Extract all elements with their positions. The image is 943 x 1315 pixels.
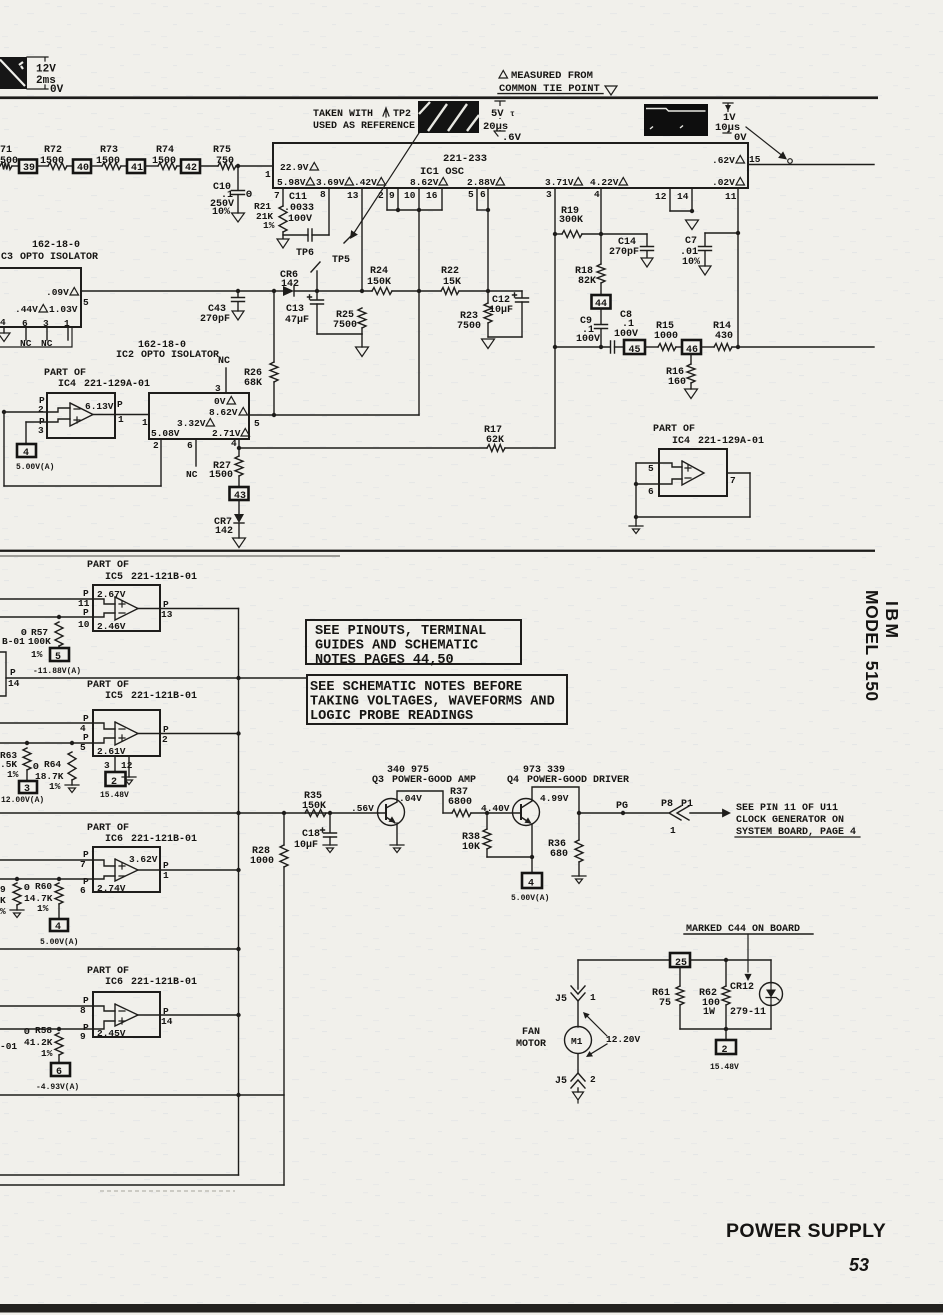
faint dashed remnant line (100, 1190, 235, 1192)
svg-text:221-129A-01: 221-129A-01 (84, 379, 150, 390)
svg-text:MEASURED FROM: MEASURED FROM (511, 70, 593, 82)
node R37/R38/Q4 base with 4.40V (485, 811, 489, 815)
svg-text:2: 2 (722, 1045, 728, 1056)
svg-text:OPTO ISOLATOR: OPTO ISOLATOR (20, 252, 98, 263)
svg-text:100V: 100V (614, 329, 638, 340)
label .6V (494, 131, 498, 136)
note box: SEE PINOUTS TERMINAL GUIDES (306, 620, 521, 664)
svg-text:12V: 12V (36, 64, 56, 76)
svg-text:2.46V: 2.46V (97, 621, 126, 632)
terminal box 41 (127, 160, 145, 174)
vertical bus collecting op-amp outputs (238, 609, 240, 1176)
svg-text:10%: 10% (682, 257, 700, 268)
IC2 pin 5 wire to pin10-bus drop (249, 414, 419, 416)
svg-text:15K: 15K (443, 277, 461, 288)
svg-text:PART OF: PART OF (87, 966, 129, 977)
supply rail to power-good amp (0, 812, 378, 814)
svg-text:6: 6 (56, 1067, 62, 1078)
svg-text:221-121B-01: 221-121B-01 (131, 977, 197, 988)
ground below R36 (572, 876, 586, 884)
terminal box 2 (15.48V) (106, 772, 126, 786)
svg-text:9: 9 (0, 884, 6, 895)
svg-text:5.08V: 5.08V (151, 428, 180, 439)
svg-text:7: 7 (730, 475, 736, 486)
node pin13/R25 (360, 289, 364, 293)
wire C3 pin5 to C43 (81, 290, 238, 292)
thick horizontal rule (bottom) (0, 1304, 943, 1313)
wire (91, 165, 102, 167)
svg-text:12: 12 (121, 760, 133, 771)
svg-text:46: 46 (686, 345, 698, 356)
svg-text:R58: R58 (35, 1025, 52, 1036)
svg-text:IC5: IC5 (105, 572, 123, 583)
wire R21 to C11 (283, 234, 308, 236)
svg-text:2: 2 (153, 440, 159, 451)
terminal box 46 (682, 340, 701, 354)
ground below R23 (482, 339, 495, 349)
svg-text:TAKEN WITH: TAKEN WITH (313, 109, 373, 120)
svg-text:22.9V: 22.9V (280, 162, 309, 173)
terminal box 42 (181, 160, 200, 174)
svg-text:1%: 1% (31, 649, 43, 660)
svg-text:3: 3 (38, 425, 44, 436)
svg-text:53: 53 (849, 1255, 869, 1275)
resistor R60 14.7K 1% (57, 877, 61, 881)
svg-text:25: 25 (675, 958, 687, 969)
svg-text:USED AS REFERENCE: USED AS REFERENCE (313, 121, 415, 132)
terminal box 4 (5.00V A) below Q4 (531, 857, 533, 873)
svg-text:100K: 100K (28, 636, 51, 647)
svg-text:GUIDES AND SCHEMATIC: GUIDES AND SCHEMATIC (315, 639, 478, 654)
wire pin14 rail (6, 677, 307, 679)
svg-text:R60: R60 (35, 881, 52, 892)
svg-text:0V: 0V (50, 84, 64, 96)
svg-text:NOTES PAGES 44,50: NOTES PAGES 44,50 (315, 653, 454, 668)
svg-text:45: 45 (629, 345, 641, 356)
fan supply top wire (578, 959, 670, 961)
svg-text:4: 4 (231, 438, 237, 449)
svg-text:1W: 1W (703, 1007, 715, 1018)
svg-text:SEE PIN 11 OF U11: SEE PIN 11 OF U11 (736, 803, 838, 814)
svg-text:C11: C11 (289, 192, 307, 203)
svg-text:IBM: IBM (882, 601, 902, 641)
terminal box 44 (600, 283, 602, 295)
svg-text:5: 5 (83, 297, 89, 308)
ground below J5-2 (577, 1088, 579, 1092)
svg-text:PART OF: PART OF (44, 368, 86, 379)
svg-text:5: 5 (254, 418, 260, 429)
svg-text:41.2K: 41.2K (24, 1037, 53, 1048)
svg-text:1: 1 (590, 992, 596, 1003)
svg-text:1%: 1% (37, 903, 49, 914)
terminal box 45 (624, 340, 645, 354)
svg-text:J5: J5 (555, 1076, 567, 1087)
TP5 test point (344, 233, 354, 243)
svg-text:-01: -01 (0, 1041, 17, 1052)
svg-text:0V: 0V (214, 396, 226, 407)
svg-text:1500: 1500 (209, 470, 233, 481)
svg-text:3: 3 (24, 784, 30, 795)
wire motor to J5 pin 2 (577, 1054, 579, 1073)
svg-text:TAKING VOLTAGES, WAVEFORMS AND: TAKING VOLTAGES, WAVEFORMS AND (310, 695, 555, 710)
terminal box 3 (12.00V A) (19, 781, 37, 793)
wire C43 to R26 node (238, 290, 274, 292)
svg-text:14: 14 (677, 191, 689, 202)
ground below C43 (232, 311, 244, 320)
svg-text:CLOCK GENERATOR ON: CLOCK GENERATOR ON (736, 815, 844, 826)
svg-text:10: 10 (78, 619, 90, 630)
svg-text:6: 6 (648, 486, 654, 497)
svg-text:1: 1 (118, 414, 124, 425)
svg-text:3: 3 (546, 189, 552, 200)
svg-text:OPTO ISOLATOR: OPTO ISOLATOR (141, 350, 219, 361)
svg-text:3: 3 (104, 760, 110, 771)
svg-text:2: 2 (378, 190, 384, 201)
ground below C10 (232, 213, 245, 222)
svg-text:4: 4 (55, 922, 61, 933)
IC4b feedback loop (635, 463, 637, 517)
transistor Q3 (378, 799, 405, 826)
svg-text:R24: R24 (370, 266, 388, 277)
svg-text:680: 680 (550, 849, 568, 860)
op-amp IC4b box (659, 449, 727, 496)
svg-text:IC6: IC6 (105, 977, 123, 988)
svg-text:.02V: .02V (712, 177, 735, 188)
svg-text:4: 4 (528, 879, 534, 890)
svg-text:71: 71 (0, 145, 12, 156)
svg-text:FAN: FAN (522, 1027, 540, 1038)
svg-text:.56V: .56V (351, 803, 374, 814)
svg-text:15.48V: 15.48V (710, 1063, 739, 1072)
svg-text:POWER-GOOD DRIVER: POWER-GOOD DRIVER (527, 775, 629, 786)
op-amp IC4a triangle (70, 403, 93, 426)
fan bottom wire (680, 1028, 771, 1030)
svg-text:3: 3 (43, 318, 49, 329)
svg-text:5.00V(A): 5.00V(A) (511, 894, 549, 903)
connector J5 pin 1 chevrons (577, 960, 579, 989)
svg-text:6: 6 (187, 440, 193, 451)
svg-text:1%: 1% (41, 1048, 53, 1059)
wire to arrow (690, 812, 722, 814)
svg-text:279-11: 279-11 (730, 1007, 766, 1018)
wire R24 segment (317, 290, 372, 292)
C13/R25 common ground wire (317, 333, 362, 335)
terminal box 4 (5.00V A) (17, 444, 36, 457)
op-amp IC5b triangle (115, 722, 138, 745)
svg-text:4: 4 (0, 317, 6, 328)
ground below C7 (699, 266, 711, 275)
svg-text:42: 42 (185, 163, 197, 174)
svg-text:12.00V(A): 12.00V(A) (1, 796, 44, 805)
wire pin3 column to C8 (555, 346, 610, 348)
wire box25 to CR12 branch (690, 959, 771, 961)
svg-text:5: 5 (468, 189, 474, 200)
feedback frame: left bus down and bottom wire to IC2 pin 2 (3, 412, 5, 486)
svg-text:7500: 7500 (457, 321, 481, 332)
svg-text:8: 8 (320, 189, 326, 200)
svg-text:4: 4 (594, 189, 600, 200)
svg-text:221-121B-01: 221-121B-01 (131, 691, 197, 702)
wire pin6 bus down to R23 (487, 210, 489, 291)
op-amp IC6b box (93, 992, 160, 1037)
transistor Q4 (513, 799, 540, 826)
terminal box 6 (-4.93V A) (51, 1063, 70, 1076)
node CR6/C13/TP6 (315, 289, 319, 293)
svg-text:1: 1 (163, 870, 169, 881)
svg-text:1%: 1% (49, 781, 61, 792)
svg-text:221-129A-01: 221-129A-01 (698, 436, 764, 447)
svg-text:TP2: TP2 (393, 109, 411, 120)
thick horizontal rule (top) (0, 96, 878, 99)
svg-text:1000: 1000 (250, 856, 274, 867)
svg-text:1: 1 (670, 825, 676, 836)
svg-text:PART OF: PART OF (87, 560, 129, 571)
op-amp IC4a box (47, 393, 115, 438)
svg-text:8.62V: 8.62V (410, 177, 439, 188)
connector J5 pin 2 chevrons (571, 1073, 585, 1088)
svg-text:-11.88V(A): -11.88V(A) (33, 667, 81, 676)
svg-text:4: 4 (23, 448, 29, 459)
ground below C14 (641, 258, 653, 267)
wire (145, 165, 158, 167)
svg-text:1500: 1500 (152, 156, 176, 167)
svg-text:MOTOR: MOTOR (516, 1039, 546, 1050)
svg-text:1000: 1000 (654, 331, 678, 342)
svg-text:4.99V: 4.99V (540, 793, 569, 804)
svg-text:SEE SCHEMATIC NOTES BEFORE: SEE SCHEMATIC NOTES BEFORE (310, 680, 522, 695)
svg-text:R64: R64 (44, 759, 61, 770)
svg-text:5: 5 (648, 463, 654, 474)
svg-text:R75: R75 (213, 145, 231, 156)
svg-text:NC: NC (218, 356, 230, 367)
svg-text:.62V: .62V (712, 155, 735, 166)
resistor R58 41.2K 1% (57, 1027, 61, 1031)
node R75/C10 (236, 164, 240, 168)
svg-text:LOGIC PROBE READINGS: LOGIC PROBE READINGS (310, 709, 473, 724)
wire rail y=949 (0, 948, 239, 950)
svg-text:5: 5 (55, 652, 61, 663)
scope photo 1 scale bracket (495, 101, 505, 131)
bus joining pins 5,6 (477, 209, 488, 211)
Q3 collector wire and .04V (397, 791, 443, 813)
scope photo 1 (hatched) 5V 20us (418, 101, 479, 133)
Q4 collector wire and 4.99V (532, 787, 579, 813)
svg-text:4.40V: 4.40V (481, 803, 510, 814)
svg-text:1: 1 (64, 318, 70, 329)
resistor R63 .5K 1% (25, 741, 29, 745)
svg-text:15.48V: 15.48V (100, 791, 129, 800)
svg-text:16: 16 (426, 190, 438, 201)
resistor R57 100K 1% (57, 615, 61, 619)
terminal box 39 (19, 160, 37, 174)
svg-text:13: 13 (161, 609, 173, 620)
opto isolator C3 box (cut at left edge) (0, 268, 81, 327)
node R21/C11 (282, 232, 284, 238)
svg-text:Q4: Q4 (507, 775, 519, 786)
svg-text:MODEL 5150: MODEL 5150 (862, 590, 882, 702)
svg-text:M1: M1 (571, 1036, 583, 1047)
svg-text:160: 160 (668, 377, 686, 388)
scope icon scale bracket (27, 57, 48, 89)
svg-text:13: 13 (347, 190, 359, 201)
svg-text:SYSTEM BOARD, PAGE 4: SYSTEM BOARD, PAGE 4 (736, 827, 856, 838)
svg-text:P: P (10, 667, 16, 678)
svg-text:10K: 10K (462, 842, 480, 853)
svg-text:430: 430 (715, 331, 733, 342)
svg-text:P8: P8 (661, 799, 673, 810)
svg-text:5.98V: 5.98V (277, 177, 306, 188)
svg-text:τ: τ (510, 110, 515, 119)
pointer line from scope photo 1 to TP5 (352, 133, 419, 236)
svg-text:3.62V: 3.62V (129, 854, 158, 865)
svg-text:41: 41 (131, 163, 143, 174)
wire pin3 to box 4 (25, 422, 27, 444)
wire R38 to Q4 emitter node (487, 856, 532, 858)
svg-text:162-18-0: 162-18-0 (32, 240, 80, 251)
svg-text:-4.93V(A): -4.93V(A) (36, 1083, 79, 1092)
svg-text:100V: 100V (288, 214, 312, 225)
capacitor C10 .1 250V 10% (237, 166, 239, 190)
svg-text:.44V: .44V (15, 304, 38, 315)
svg-text:C3: C3 (1, 252, 13, 263)
terminal box 5 (-11.88V A) (50, 648, 69, 661)
svg-text:12: 12 (655, 191, 667, 202)
svg-text:B-01: B-01 (2, 636, 25, 647)
svg-text:PART OF: PART OF (87, 823, 129, 834)
svg-text:3.32V: 3.32V (177, 418, 206, 429)
svg-text:270pF: 270pF (609, 247, 639, 258)
svg-text:IC6: IC6 (105, 834, 123, 845)
svg-text:68K: 68K (244, 378, 262, 389)
terminal box 2 (15.48V) fan (725, 1029, 727, 1040)
svg-text:P1: P1 (681, 799, 693, 810)
svg-text:J5: J5 (555, 994, 567, 1005)
svg-text:6: 6 (80, 885, 86, 896)
svg-text:15: 15 (749, 154, 761, 165)
svg-text:CR12: CR12 (730, 982, 754, 993)
wire pin10 bus down to opto wire (418, 210, 420, 415)
svg-text:P: P (117, 399, 123, 410)
horizontal rule (middle) (0, 550, 875, 552)
svg-text:43: 43 (234, 491, 246, 502)
svg-text:Θ: Θ (24, 882, 30, 893)
svg-text:39: 39 (23, 163, 35, 174)
scope waveform icon (12V/2ms reference trace) (0, 57, 27, 89)
ground below R21 (277, 239, 289, 248)
svg-text:1: 1 (142, 417, 148, 428)
svg-text:.09V: .09V (46, 287, 69, 298)
svg-text:2: 2 (111, 777, 117, 788)
svg-text:82K: 82K (578, 276, 596, 287)
note box: SEE SCHEMATIC NOTES BEFORE (307, 675, 567, 724)
IC2 opto isolator box (149, 393, 249, 439)
svg-text:8.62V: 8.62V (209, 407, 238, 418)
terminal box 25 (670, 953, 690, 967)
svg-text:9: 9 (80, 1031, 86, 1042)
svg-text:9: 9 (389, 190, 395, 201)
svg-text:R73: R73 (100, 145, 118, 156)
svg-text:1: 1 (265, 169, 271, 180)
svg-text:75: 75 (659, 998, 671, 1009)
label 20us (483, 119, 508, 130)
svg-text:150K: 150K (367, 277, 391, 288)
ground below R16 (685, 389, 698, 399)
terminal box 40 (73, 160, 91, 174)
wire (200, 165, 218, 167)
svg-text:.42V: .42V (354, 177, 377, 188)
svg-text:6: 6 (22, 318, 28, 329)
svg-text:1%: 1% (7, 769, 19, 780)
svg-text:14: 14 (161, 1016, 173, 1027)
resistor R64 18.7K 1% (70, 741, 74, 745)
fan motor M1 (565, 1027, 592, 1054)
svg-text:Q3: Q3 (372, 775, 384, 786)
svg-text:PART OF: PART OF (653, 424, 695, 435)
scope photo 2 scale bracket (723, 103, 733, 133)
svg-text:R74: R74 (156, 145, 174, 156)
svg-text:7500: 7500 (333, 320, 357, 331)
svg-text:PG: PG (616, 801, 628, 812)
svg-text:221-233: 221-233 (443, 153, 487, 165)
svg-text:5V: 5V (491, 108, 504, 120)
svg-text:10µF: 10µF (489, 305, 513, 316)
svg-text:TP5: TP5 (332, 255, 350, 266)
svg-text:47µF: 47µF (285, 315, 309, 326)
svg-text:11: 11 (725, 191, 737, 202)
ground on IC4b loop (635, 517, 637, 526)
svg-text:5.00V(A): 5.00V(A) (16, 463, 54, 472)
svg-text:7: 7 (274, 190, 280, 201)
svg-text:100V: 100V (576, 334, 600, 345)
ground below R64 (65, 785, 79, 793)
op-amp IC6a triangle (115, 859, 138, 881)
pointer arrow from note to CR12 (747, 934, 749, 972)
edge connector stub (pin 14, cut at left) (0, 652, 6, 696)
bottom return wire of bus (0, 1174, 239, 1176)
svg-text:NC: NC (186, 469, 198, 480)
svg-text:TP6: TP6 (296, 248, 314, 259)
svg-text:1500: 1500 (96, 156, 120, 167)
wire rail y=1095 (0, 1094, 284, 1096)
svg-text:Θ: Θ (24, 1026, 30, 1037)
svg-text:2.61V: 2.61V (97, 746, 126, 757)
svg-text:R22: R22 (441, 266, 459, 277)
svg-text:2.74V: 2.74V (97, 883, 126, 894)
down-triangle marker after COMMON TIE POINT (605, 86, 617, 95)
svg-text:10µF: 10µF (294, 840, 318, 851)
svg-text:2: 2 (590, 1074, 596, 1085)
ground below R25 (356, 347, 369, 357)
svg-text:K: K (0, 895, 6, 906)
svg-text:2: 2 (162, 734, 168, 745)
svg-text:3.71V: 3.71V (545, 177, 574, 188)
svg-text:.04V: .04V (399, 793, 422, 804)
wire J5-1 to motor (577, 1001, 579, 1027)
svg-text:3.69V: 3.69V (316, 177, 345, 188)
svg-text:2.88V: 2.88V (467, 177, 496, 188)
svg-text:POWER-GOOD AMP: POWER-GOOD AMP (392, 775, 476, 786)
svg-text:12.20V: 12.20V (606, 1034, 641, 1045)
Q3 emitter to ground (396, 823, 398, 845)
svg-text:2: 2 (38, 404, 44, 415)
wire (37, 165, 48, 167)
svg-text:1.03V: 1.03V (49, 304, 78, 315)
terminal box 43 (230, 487, 249, 500)
svg-text:IC4: IC4 (672, 436, 690, 447)
bottom return wire of R28 rail (0, 1184, 284, 1186)
ground below CR7 (233, 538, 246, 548)
svg-text:IC5: IC5 (105, 691, 123, 702)
